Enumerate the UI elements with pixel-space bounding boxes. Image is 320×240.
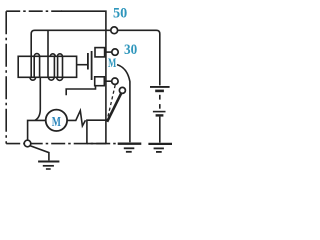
svg-text:M: M	[52, 115, 61, 130]
svg-text:30: 30	[124, 42, 137, 58]
svg-text:50: 50	[113, 5, 127, 21]
svg-text:M: M	[108, 55, 116, 70]
